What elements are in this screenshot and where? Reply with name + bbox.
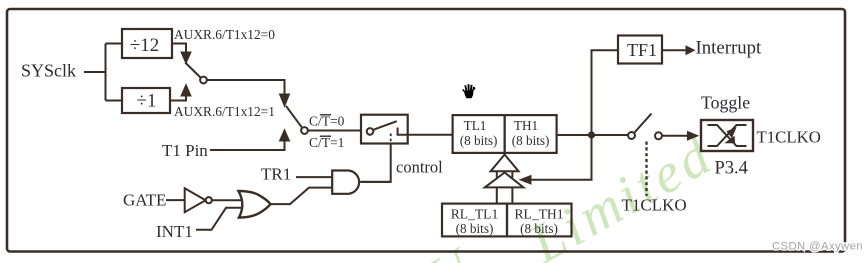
svg-text:(8 bits): (8 bits) — [520, 221, 558, 236]
svg-text:TH1: TH1 — [514, 118, 538, 133]
svg-text:TL1: TL1 — [464, 118, 487, 133]
svg-text:RL_TH1: RL_TH1 — [514, 207, 563, 222]
svg-text:Interrupt: Interrupt — [696, 38, 762, 59]
svg-text:AUXR.6/T1x12=1: AUXR.6/T1x12=1 — [174, 104, 275, 119]
svg-text:RL_TL1: RL_TL1 — [451, 207, 499, 222]
svg-text:÷1: ÷1 — [137, 91, 157, 112]
svg-text:C/T=0: C/T=0 — [309, 114, 345, 129]
svg-text:CSDN @Axywen: CSDN @Axywen — [772, 241, 863, 253]
svg-text:GATE: GATE — [123, 191, 166, 210]
svg-text:÷12: ÷12 — [130, 35, 159, 56]
svg-text:C/T=1: C/T=1 — [309, 135, 344, 150]
svg-text:AUXR.6/T1x12=0: AUXR.6/T1x12=0 — [174, 27, 275, 42]
svg-text:P3.4: P3.4 — [715, 159, 748, 179]
svg-text:T1CLKO: T1CLKO — [622, 196, 687, 215]
svg-text:(8 bits): (8 bits) — [460, 133, 498, 148]
svg-text:TR1: TR1 — [261, 165, 291, 184]
svg-text:Toggle: Toggle — [701, 93, 750, 113]
svg-text:control: control — [396, 158, 443, 177]
svg-text:T1CLKO: T1CLKO — [757, 128, 821, 147]
svg-text:(8 bits): (8 bits) — [512, 133, 550, 148]
svg-text:T1 Pin: T1 Pin — [162, 141, 208, 160]
svg-text:(8 bits): (8 bits) — [456, 221, 494, 236]
svg-text:TF1: TF1 — [627, 40, 657, 60]
svg-text:SYSclk: SYSclk — [21, 61, 76, 81]
svg-text:INT1: INT1 — [156, 222, 193, 241]
